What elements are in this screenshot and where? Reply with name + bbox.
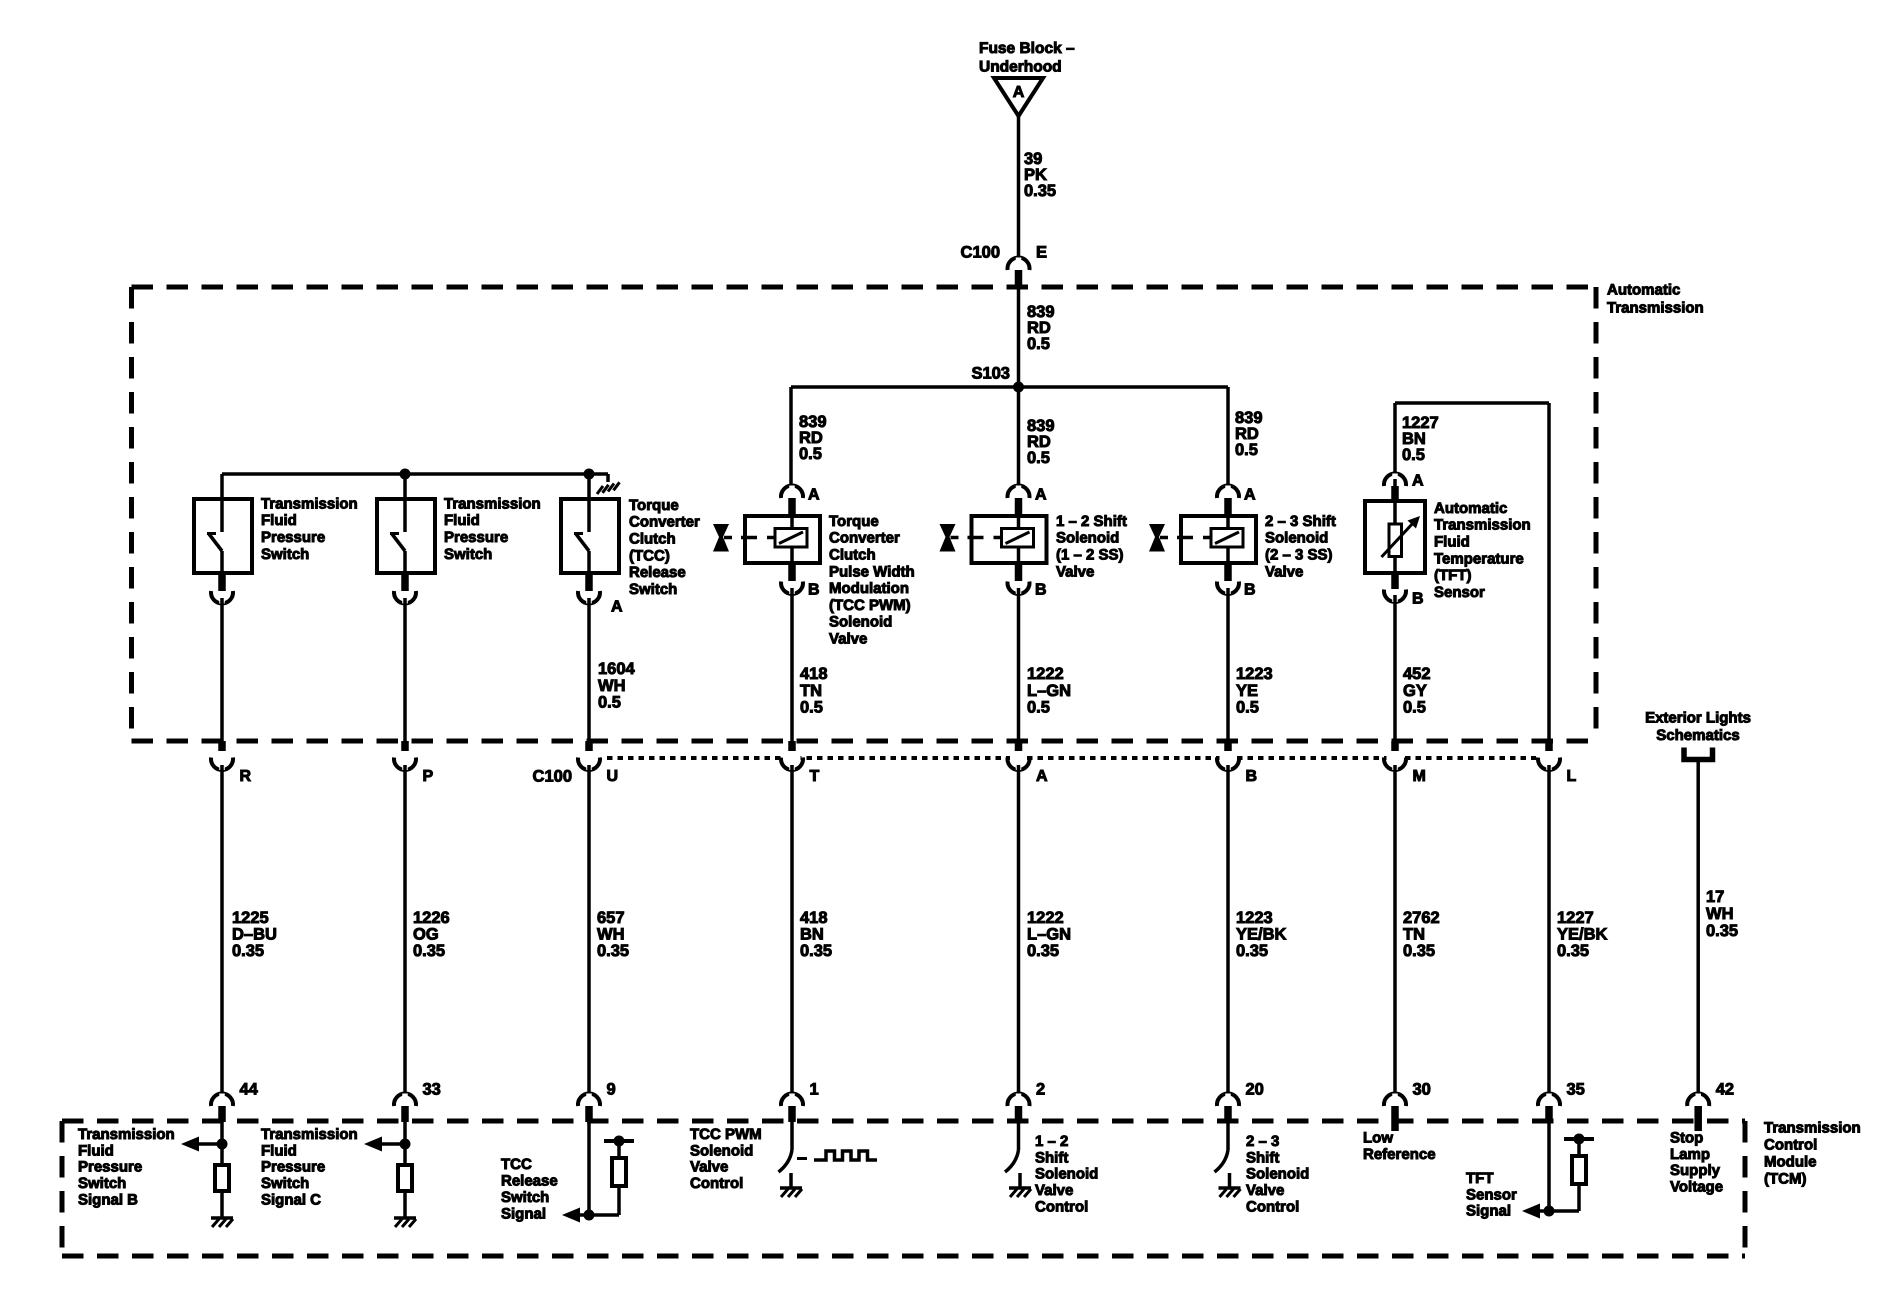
TCM pin 33 signal wire (403, 1122, 407, 1163)
label: TFT sensor signal (1466, 1170, 1517, 1220)
connector C100 pin E (1008, 258, 1030, 289)
connector C100 pin A (1008, 741, 1049, 785)
svg-text:(1 – 2 SS): (1 – 2 SS) (1056, 547, 1124, 564)
svg-text:Transmission: Transmission (1764, 1119, 1861, 1136)
svg-text:Valve: Valve (1056, 563, 1094, 580)
svg-text:1 – 2 Shift: 1 – 2 Shift (1056, 513, 1127, 530)
wire label 1223 YE 0.5 (1236, 665, 1273, 717)
svg-text:Torque: Torque (829, 513, 879, 530)
TCM pin 30 stub (1391, 1122, 1399, 1131)
wire label 1223 YE/BK 0.35 (1236, 909, 1287, 960)
wire 1227 YE/BK from C100 pin to TCM (1547, 765, 1551, 1096)
svg-text:B: B (1412, 591, 1424, 608)
svg-text:U: U (607, 768, 619, 785)
svg-text:C100: C100 (533, 768, 572, 786)
wire label 418 TN 0.5 (800, 665, 828, 717)
wire label 2762 TN 0.35 (1403, 909, 1440, 960)
svg-text:452: 452 (1403, 665, 1431, 683)
svg-text:Voltage: Voltage (1670, 1179, 1723, 1196)
svg-text:Solenoid: Solenoid (1246, 1166, 1309, 1183)
svg-text:Fluid: Fluid (261, 1142, 297, 1159)
svg-text:M: M (1413, 768, 1426, 785)
svg-text:Switch: Switch (78, 1175, 126, 1192)
svg-text:44: 44 (240, 1081, 259, 1099)
1-2 shift solenoid valve with pins A/B (972, 486, 1047, 595)
svg-text:0.5: 0.5 (800, 699, 823, 717)
svg-text:1604: 1604 (598, 660, 636, 678)
TCM pin 2 wire (1017, 1122, 1021, 1150)
svg-text:0.5: 0.5 (1235, 441, 1258, 459)
svg-text:(TCC PWM): (TCC PWM) (829, 597, 911, 614)
connector C100 pin M (1384, 741, 1426, 785)
connector C100 pin T (781, 741, 820, 785)
svg-text:20: 20 (1246, 1081, 1264, 1099)
hydraulic valve symbol (TCC PWM) (713, 524, 775, 552)
wire 418 TN from TCC PWM solenoid to pin T (790, 588, 794, 741)
wire label 1227 YE/BK 0.35 (1557, 909, 1608, 960)
junction node pin 44 (217, 1139, 228, 1150)
TCM connector pin 35 (1538, 1081, 1585, 1123)
svg-text:YE/BK: YE/BK (1557, 926, 1608, 944)
resistor (pin 9 pull-up) (612, 1158, 626, 1186)
svg-text:Valve: Valve (1035, 1182, 1073, 1199)
resistor (pin 35 pull-up) (1572, 1156, 1586, 1184)
svg-text:0.35: 0.35 (800, 942, 832, 960)
wire 452 GY from TFT sensor to pin M (1393, 595, 1397, 741)
svg-text:1225: 1225 (232, 909, 269, 927)
svg-text:30: 30 (1413, 1081, 1431, 1099)
wire label 418 BN 0.35 (800, 909, 832, 960)
svg-text:Control: Control (1035, 1199, 1088, 1216)
wire label 839 RD 0.5 (right branch) (1235, 409, 1263, 459)
connector C100 pin R (211, 741, 252, 785)
splice S103 junction (791, 382, 1228, 393)
inline connector C100 dotted line (607, 756, 1536, 760)
svg-text:A: A (1013, 84, 1025, 101)
svg-text:Valve: Valve (1265, 563, 1303, 580)
svg-text:A: A (1244, 487, 1256, 504)
TFT sensor pin B (1384, 575, 1424, 608)
driver switch (pin 20) (1215, 1150, 1230, 1188)
svg-text:Signal: Signal (1466, 1203, 1511, 1220)
svg-text:Solenoid: Solenoid (690, 1142, 753, 1159)
wire 1222 L-GN from 1-2 solenoid to pin A (1017, 588, 1021, 741)
svg-text:35: 35 (1567, 1081, 1585, 1099)
svg-text:Transmission: Transmission (1434, 517, 1531, 534)
hydraulic valve symbol (2-3 SS) (1149, 524, 1211, 552)
svg-text:C100: C100 (961, 244, 1000, 262)
internal supply bar (pin 35 pull-up) (1564, 1134, 1594, 1155)
svg-text:A: A (1036, 768, 1048, 785)
svg-text:YE/BK: YE/BK (1236, 926, 1287, 944)
TCM pin 44 signal wire (220, 1122, 224, 1163)
svg-text:(TCC): (TCC) (629, 547, 670, 564)
svg-text:Converter: Converter (629, 514, 700, 531)
svg-text:Sensor: Sensor (1466, 1186, 1517, 1203)
wire 657 WH from C100 pin to TCM (587, 765, 591, 1096)
svg-text:Pulse Width: Pulse Width (829, 563, 915, 580)
svg-text:L–GN: L–GN (1027, 926, 1071, 944)
TCC PWM solenoid valve U1 with pins A/B (745, 486, 820, 595)
svg-text:Valve: Valve (690, 1159, 728, 1176)
wire label 839 RD 0.5 (above S103) (1027, 303, 1055, 353)
label: transmission fluid pressure switch signal C (261, 1126, 358, 1209)
svg-text:0.5: 0.5 (1236, 699, 1259, 717)
svg-text:1227: 1227 (1557, 909, 1594, 927)
TCM connector pin 30 (1384, 1081, 1431, 1123)
driver switch (pin 1) (779, 1150, 793, 1188)
fuse block label (979, 40, 1075, 76)
svg-text:A: A (1035, 487, 1047, 504)
svg-text:Signal B: Signal B (78, 1192, 138, 1209)
svg-text:Signal: Signal (501, 1205, 546, 1222)
wire from switch 2 to pin P (403, 598, 407, 741)
svg-text:0.35: 0.35 (1236, 942, 1268, 960)
svg-text:Valve: Valve (829, 631, 867, 648)
torque converter clutch release switch (box) (561, 499, 619, 575)
TCM connector pin 1 (781, 1081, 819, 1123)
svg-text:YE: YE (1236, 682, 1258, 700)
svg-text:TCC PWM: TCC PWM (690, 1126, 762, 1143)
label: 1-2 shift solenoid valve control (1035, 1133, 1098, 1216)
svg-text:WH: WH (1706, 905, 1734, 923)
driver switch (pin 2) (1005, 1150, 1020, 1188)
svg-text:A: A (808, 487, 820, 504)
wire 1222 L–GN from C100 pin to TCM (1017, 765, 1021, 1096)
case/actuator hatch symbol at TCC release switch (597, 482, 620, 494)
hydraulic valve symbol (1-2 SS) (940, 524, 1002, 552)
svg-text:1222: 1222 (1027, 909, 1064, 927)
wire label 17 WH 0.35 (1706, 888, 1738, 940)
svg-text:9: 9 (607, 1081, 616, 1099)
svg-text:Shift: Shift (1246, 1149, 1279, 1166)
connector C100 pin U (578, 741, 618, 785)
TCM pin 42 stub (1694, 1122, 1702, 1131)
label: transmission fluid pressure switch signal B (78, 1126, 175, 1209)
svg-text:Automatic: Automatic (1434, 500, 1507, 517)
automatic transmission fluid temperature sensor (box) (1365, 499, 1425, 575)
svg-text:33: 33 (423, 1081, 441, 1099)
svg-text:P: P (423, 768, 434, 785)
connector C100 pin L (1538, 741, 1577, 785)
2-3 shift solenoid valve with pins A/B (1181, 486, 1256, 595)
wire label 1604 WH 0.5 (598, 660, 636, 712)
svg-text:R: R (240, 768, 252, 785)
junction node pin 35 (1544, 1206, 1555, 1217)
svg-text:0.5: 0.5 (1403, 699, 1426, 717)
transmission fluid pressure switch 2 (box) (377, 499, 435, 575)
TCM pin 1 wire (790, 1122, 794, 1150)
connector C100 pin B (1217, 741, 1257, 785)
TCM connector pin 2 (1008, 1081, 1046, 1123)
svg-text:(2 – 3 SS): (2 – 3 SS) (1265, 547, 1333, 564)
svg-text:0.35: 0.35 (1024, 182, 1056, 200)
svg-text:L–GN: L–GN (1027, 682, 1071, 700)
label: stop lamp supply voltage (1670, 1129, 1723, 1195)
wire 1226 OG from C100 pin to TCM (403, 765, 407, 1096)
wire label 657 WH 0.35 (597, 909, 629, 960)
switch 1 bottom terminal (211, 575, 233, 604)
wire 839 RD branch to 1-2 shift solenoid (1017, 387, 1021, 488)
svg-text:Pressure: Pressure (444, 529, 508, 546)
svg-text:Control: Control (690, 1175, 743, 1192)
svg-text:0.35: 0.35 (232, 942, 264, 960)
svg-text:(TFT): (TFT) (1434, 567, 1471, 584)
wire label 452 GY 0.5 (1403, 665, 1431, 717)
wire label 839 RD 0.5 (middle branch) (1027, 417, 1055, 467)
TCC release switch label (629, 497, 700, 598)
ground (pin 20 driver) (1219, 1188, 1241, 1197)
1-2 shift solenoid valve label (1056, 513, 1127, 580)
svg-text:0.35: 0.35 (1027, 942, 1059, 960)
arrow: TFT sensor signal (1522, 1204, 1549, 1219)
automatic transmission dashed outline box (132, 287, 1597, 741)
wire 2762 TN from C100 pin to TCM (1393, 765, 1397, 1096)
svg-text:0.5: 0.5 (1027, 335, 1050, 353)
svg-text:418: 418 (800, 665, 828, 683)
svg-text:Fuse Block –: Fuse Block – (979, 40, 1075, 57)
svg-text:Reference: Reference (1363, 1146, 1436, 1163)
transmission control module label (1764, 1119, 1861, 1187)
svg-text:Modulation: Modulation (829, 580, 909, 597)
svg-text:B: B (1244, 582, 1256, 599)
resistor (pin 33 pull-down) (398, 1165, 412, 1191)
svg-text:BN: BN (800, 926, 824, 944)
svg-text:Module: Module (1764, 1153, 1817, 1170)
ground (pin 33) (394, 1218, 416, 1227)
arrow: transmission fluid pressure switch signal C (364, 1137, 405, 1152)
svg-text:17: 17 (1706, 888, 1724, 906)
wire 418 BN from C100 pin to TCM (790, 765, 794, 1096)
svg-text:1226: 1226 (413, 909, 450, 927)
svg-text:T: T (810, 768, 820, 785)
svg-text:0.35: 0.35 (597, 942, 629, 960)
svg-text:Transmission: Transmission (261, 1126, 358, 1143)
junction node (switch 2 tap) (400, 469, 411, 480)
2-3 shift solenoid valve label (1265, 513, 1336, 580)
label: TCC PWM solenoid valve control (690, 1126, 762, 1192)
svg-text:Fluid: Fluid (444, 512, 480, 529)
transmission fluid pressure switch 1 label (261, 495, 358, 562)
svg-text:OG: OG (413, 926, 439, 944)
connector C100 label (bottom) (533, 768, 572, 786)
svg-text:Solenoid: Solenoid (1056, 530, 1119, 547)
TCM connector pin 9 (578, 1081, 616, 1123)
svg-text:Clutch: Clutch (629, 531, 676, 548)
svg-text:E: E (1036, 244, 1047, 262)
svg-text:Lamp: Lamp (1670, 1146, 1710, 1163)
svg-text:Solenoid: Solenoid (1035, 1166, 1098, 1183)
svg-text:0.35: 0.35 (1557, 942, 1589, 960)
svg-text:1: 1 (810, 1081, 819, 1099)
svg-text:Transmission: Transmission (261, 495, 358, 512)
svg-text:Control: Control (1246, 1199, 1299, 1216)
svg-text:B: B (808, 582, 820, 599)
svg-text:Switch: Switch (261, 546, 309, 563)
connector C100 pin E label (961, 244, 1047, 262)
svg-text:Clutch: Clutch (829, 547, 876, 564)
ground (pin 44) (211, 1218, 233, 1227)
svg-text:1 – 2: 1 – 2 (1035, 1133, 1068, 1150)
TFT sensor pin A (1384, 473, 1424, 499)
junction node pin 9 (584, 1210, 595, 1221)
internal supply bar (pin 9 pull-up) (604, 1136, 634, 1159)
svg-text:Solenoid: Solenoid (829, 614, 892, 631)
svg-text:(TCM): (TCM) (1764, 1170, 1806, 1187)
svg-text:Low: Low (1363, 1129, 1393, 1146)
svg-text:Supply: Supply (1670, 1162, 1721, 1179)
svg-text:Converter: Converter (829, 530, 900, 547)
svg-text:Release: Release (501, 1172, 558, 1189)
wire resistor to junction (pin 9) (589, 1186, 619, 1215)
svg-text:Automatic: Automatic (1607, 281, 1680, 298)
svg-text:Transmission: Transmission (78, 1126, 175, 1143)
wire label 1227 BN 0.5 (1402, 414, 1439, 464)
svg-text:B: B (1246, 768, 1258, 785)
connector C100 pin P (394, 741, 434, 785)
ground (pin 2 driver) (1009, 1188, 1031, 1197)
svg-text:42: 42 (1716, 1081, 1734, 1099)
wire 39 PK from fuse block to C100 (1017, 116, 1021, 260)
svg-text:0.35: 0.35 (1403, 942, 1435, 960)
svg-text:Torque: Torque (629, 497, 679, 514)
TCM pin 9 signal wire (587, 1122, 591, 1215)
wire resistor to ground (pin 44) (220, 1191, 224, 1218)
svg-text:2: 2 (1036, 1081, 1045, 1099)
svg-text:Transmission: Transmission (444, 495, 541, 512)
junction node (switch 3 tap) (584, 469, 595, 480)
svg-text:Signal C: Signal C (261, 1192, 321, 1209)
wire from switch 1 to pin R (220, 598, 224, 741)
wire 839 RD branch to 2-3 shift solenoid (1226, 387, 1230, 488)
svg-text:WH: WH (597, 926, 625, 944)
resistor (pin 44 pull-down) (215, 1165, 229, 1191)
wire 839 RD from C100 to splice S103 (1017, 288, 1021, 387)
svg-text:Exterior Lights: Exterior Lights (1645, 709, 1751, 726)
arrow: transmission fluid pressure switch signal B (181, 1137, 222, 1152)
svg-text:Switch: Switch (501, 1189, 549, 1206)
svg-text:0.5: 0.5 (1402, 446, 1425, 464)
svg-text:2762: 2762 (1403, 909, 1440, 927)
svg-text:418: 418 (800, 909, 828, 927)
svg-text:Valve: Valve (1246, 1182, 1284, 1199)
label: TCC release switch signal (501, 1156, 558, 1223)
svg-text:2 – 3 Shift: 2 – 3 Shift (1265, 513, 1336, 530)
svg-text:Control: Control (1764, 1136, 1817, 1153)
svg-text:657: 657 (597, 909, 625, 927)
svg-text:1223: 1223 (1236, 909, 1273, 927)
wire label 839 RD 0.5 (left branch) (799, 413, 827, 463)
exterior lights schematics label (1645, 709, 1751, 744)
wire 17 WH stop lamp supply to pin 42 (1696, 760, 1700, 1097)
svg-text:0.5: 0.5 (598, 694, 621, 712)
TFT sensor label (1434, 500, 1531, 601)
wire 1227 BN loop from TFT sensor to pin L (1395, 403, 1549, 741)
label: 2-3 shift solenoid valve control (1246, 1133, 1309, 1216)
wire 1225 D–BU from C100 pin to TCM (220, 765, 224, 1096)
svg-text:Pressure: Pressure (261, 529, 325, 546)
wire resistor to ground (pin 33) (403, 1191, 407, 1218)
svg-text:Temperature: Temperature (1434, 550, 1524, 567)
TCM pin 35 signal wire (1547, 1122, 1551, 1211)
svg-text:A: A (1412, 473, 1424, 490)
svg-text:Solenoid: Solenoid (1265, 530, 1328, 547)
PWM waveform symbol (797, 1151, 877, 1160)
svg-text:D–BU: D–BU (232, 926, 277, 944)
svg-text:Stop: Stop (1670, 1129, 1703, 1146)
wire 1223 YE/BK from C100 pin to TCM (1226, 765, 1230, 1096)
svg-text:GY: GY (1403, 682, 1427, 700)
TCM connector pin 20 (1217, 1081, 1264, 1123)
wire label 1222 L-GN 0.5 (1027, 665, 1071, 717)
svg-text:1222: 1222 (1027, 665, 1064, 683)
svg-text:Schematics: Schematics (1656, 727, 1739, 744)
svg-text:1223: 1223 (1236, 665, 1273, 683)
wire 839 RD branch to TCC PWM solenoid (789, 387, 793, 488)
svg-text:TN: TN (1403, 926, 1425, 944)
TCC PWM solenoid valve label (829, 513, 915, 648)
svg-text:Switch: Switch (261, 1175, 309, 1192)
wire label 1225 D–BU 0.35 (232, 909, 277, 960)
svg-text:Switch: Switch (444, 546, 492, 563)
wire 1223 YE from 2-3 solenoid to pin B (1226, 588, 1230, 741)
svg-text:0.5: 0.5 (799, 445, 822, 463)
wire label 1226 OG 0.35 (413, 909, 450, 960)
svg-text:0.35: 0.35 (1706, 922, 1738, 940)
svg-text:TCC: TCC (501, 1156, 532, 1173)
transmission fluid pressure switch 1 (box) (194, 499, 252, 575)
svg-text:A: A (611, 599, 623, 616)
TCM connector pin 44 (211, 1081, 259, 1123)
svg-text:Shift: Shift (1035, 1149, 1068, 1166)
automatic transmission label (1607, 281, 1704, 316)
svg-text:TFT: TFT (1466, 1170, 1494, 1187)
svg-text:WH: WH (598, 677, 626, 695)
ground (pin 1 driver) (780, 1188, 802, 1197)
switch 2 bottom terminal (394, 575, 416, 604)
wire label 39 PK 0.35 (1024, 150, 1056, 200)
junction node pin 33 (400, 1139, 411, 1150)
wire label 1222 L–GN 0.35 (1027, 909, 1071, 960)
transmission control module dashed outline box (62, 1121, 1745, 1256)
TCC release switch bottom terminal pin A (578, 575, 623, 616)
svg-text:Transmission: Transmission (1607, 299, 1704, 316)
svg-text:Sensor: Sensor (1434, 584, 1485, 601)
transmission fluid pressure switch 2 label (444, 495, 541, 562)
off-page bracket (exterior lights schematics) (1684, 748, 1713, 760)
svg-text:0.5: 0.5 (1027, 449, 1050, 467)
svg-text:Release: Release (629, 564, 686, 581)
wire connecting pressure switches and TCC release switch (222, 474, 608, 532)
wire resistor to junction (pin 35) (1549, 1184, 1579, 1211)
svg-text:TN: TN (800, 682, 822, 700)
svg-text:Underhood: Underhood (979, 58, 1062, 75)
svg-text:0.35: 0.35 (413, 942, 445, 960)
svg-text:Fluid: Fluid (78, 1142, 114, 1159)
svg-text:S103: S103 (971, 365, 1010, 383)
svg-text:L: L (1567, 768, 1577, 785)
TCM connector pin 33 (394, 1081, 441, 1123)
wire 1604 WH from TCC release switch to pin U (587, 598, 591, 741)
svg-text:Pressure: Pressure (261, 1159, 325, 1176)
arrow: TCC release switch signal (562, 1208, 589, 1223)
svg-text:Fluid: Fluid (261, 512, 297, 529)
svg-text:0.5: 0.5 (1027, 699, 1050, 717)
svg-text:2 – 3: 2 – 3 (1246, 1133, 1279, 1150)
TCM pin 20 wire (1226, 1122, 1230, 1150)
splice S103 label (971, 365, 1010, 383)
svg-text:Pressure: Pressure (78, 1159, 142, 1176)
